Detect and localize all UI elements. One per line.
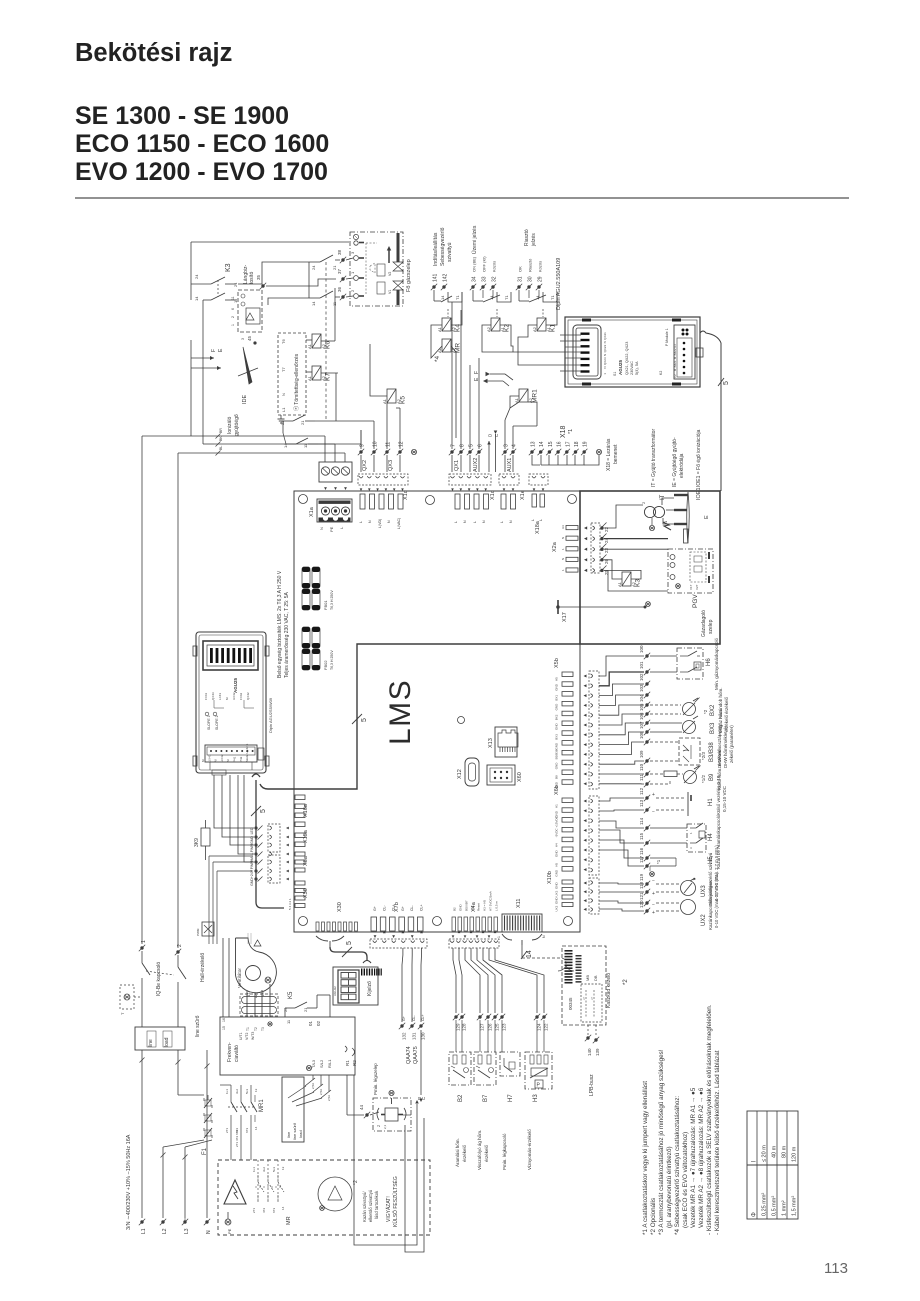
wire from 35 to 37 (266, 279, 336, 286)
svg-text:6: 6 (478, 444, 484, 447)
svg-text:*1: *1 (656, 859, 661, 864)
svg-text:02: 02 (316, 1020, 321, 1026)
svg-text:T2: T2 (254, 1027, 258, 1031)
svg-text:T7: T7 (281, 367, 286, 372)
QX2 QX3 labels (362, 460, 394, 471)
svg-text:112: 112 (639, 787, 644, 795)
svg-text:QX22: QX22 (603, 344, 607, 352)
svg-text:UX42: UX42 (220, 754, 224, 762)
X11 bus to kaszkad (502, 934, 574, 971)
svg-text:X13: X13 (488, 738, 494, 748)
signal group 1 terminals 141/142 (431, 227, 453, 290)
X17 connector (556, 600, 650, 622)
QX2/QX3 terminal strip (358, 474, 408, 491)
svg-text:22: 22 (604, 526, 609, 532)
svg-text:AUX2: AUX2 (473, 458, 479, 472)
valve contact pair 24/21 14/11 (309, 255, 340, 420)
svg-text:12: 12 (399, 441, 405, 447)
X6b connector column (554, 785, 573, 876)
H3 pressure sensor box (525, 1052, 552, 1170)
svg-text:24: 24 (194, 274, 199, 279)
svg-text:B2: B2 (458, 1094, 464, 1102)
svg-text:14: 14 (440, 295, 445, 300)
svg-text:H1: H1 (708, 798, 714, 806)
svg-text:T1: T1 (550, 295, 555, 300)
svg-text:Kaszkád kezelő: Kaszkád kezelő (606, 973, 612, 1008)
svg-text:K6: K6 (325, 341, 332, 349)
svg-text:BX22: BX22 (673, 348, 677, 355)
svg-text:EVO 1200 - EVO 1700: EVO 1200 - EVO 1700 (75, 158, 328, 186)
svg-text:L(VD): L(VD) (378, 519, 382, 528)
svg-text:1,5 mm²: 1,5 mm² (792, 1196, 798, 1216)
svg-text:Bekötési rajz: Bekötési rajz (75, 39, 232, 67)
X5b connector column (554, 658, 573, 789)
signal group 3 terminals 31/30/29 (516, 229, 544, 290)
svg-text:L: L (454, 521, 458, 523)
svg-text:120 m: 120 m (792, 1146, 798, 1162)
QX1/AUX2 labels (454, 458, 479, 472)
terminal rows 100-111 wires (599, 645, 650, 787)
svg-text:H3 = H5: H3 = H5 (483, 900, 487, 911)
freq box output fuse marks (305, 1078, 331, 1101)
X7b external strip (370, 931, 427, 949)
svg-text:⌇: ⌇ (591, 996, 593, 1001)
terminal rows 118-121 UX pumps (599, 873, 696, 916)
svg-text:Frekven-: Frekven- (227, 1042, 233, 1062)
H7 switch box (500, 1052, 520, 1170)
svg-text:34: 34 (472, 276, 478, 282)
X16a connector column left edge (295, 795, 309, 827)
X18 legend text (606, 438, 619, 471)
wires from left to X1a (214, 436, 345, 462)
svg-text:115: 115 (639, 832, 644, 840)
wire loop around K4/MR (431, 292, 462, 438)
svg-text:H6: H6 (706, 658, 712, 666)
svg-text:QAA74: QAA74 (406, 1046, 412, 1064)
svg-text:11: 11 (231, 296, 235, 300)
svg-text:K3: K3 (635, 579, 642, 587)
svg-text:jelzés: jelzés (531, 233, 537, 247)
svg-text:SE 1300 - SE 1900: SE 1300 - SE 1900 (75, 102, 289, 130)
svg-text:5: 5 (260, 809, 267, 813)
svg-text:110: 110 (639, 763, 644, 771)
svg-text:Ionizáló: Ionizáló (227, 417, 233, 434)
svg-text:BX3: BX3 (710, 722, 716, 734)
svg-text:18: 18 (574, 441, 580, 447)
annex box ignition/gas valve section (580, 491, 720, 644)
svg-text:1: 1 (231, 324, 235, 326)
X2a terminal numbers 22-25 (602, 523, 610, 576)
svg-text:B9: B9 (709, 773, 715, 781)
line filter 2 box (282, 1077, 304, 1142)
svg-text:UX2: UX2 (555, 905, 559, 911)
svg-text:24: 24 (311, 265, 316, 270)
X10b connector column (547, 871, 573, 911)
X30 connector slots (316, 902, 358, 931)
svg-text:P Module 1: P Module 1 (665, 328, 669, 346)
relay coil K2 (486, 318, 511, 332)
QAA wires from X7b (399, 948, 426, 1040)
svg-text:AGU25: AGU25 (618, 359, 623, 375)
horizontal rule (75, 197, 849, 198)
power wires below line box (140, 1050, 213, 1218)
svg-text:3: 3 (504, 444, 510, 447)
svg-text:Hall-érzékelő: Hall-érzékelő (200, 953, 206, 982)
svg-text:107: 107 (639, 721, 644, 729)
svg-text:G+: G+ (373, 906, 377, 911)
svg-text:F: F (211, 349, 217, 352)
main gas valve box Fo gazszelep (350, 232, 403, 306)
signal group 2 terminals 34/33/32 (470, 225, 498, 290)
svg-text:140: 140 (587, 1048, 592, 1056)
svg-text:K7: K7 (325, 373, 332, 381)
wire from K1 to module (518, 292, 565, 365)
svg-text:A2: A2 (486, 326, 491, 332)
svg-text:X18 = Lezárás: X18 = Lezárás (606, 438, 612, 471)
bus from AGU to X50 (251, 774, 284, 908)
svg-text:118: 118 (639, 881, 644, 889)
svg-text:35: 35 (256, 274, 261, 280)
svg-text:L: L (539, 519, 543, 521)
thick bus annex to AGU module (260, 644, 580, 789)
label Langbiztosito (243, 264, 255, 284)
svg-text:CL+: CL+ (392, 904, 396, 911)
module bus wire with 5 marker (700, 331, 730, 491)
svg-text:2: 2 (231, 316, 235, 318)
svg-text:*4: *4 (434, 355, 441, 362)
svg-text:PWM: PWM (196, 928, 200, 936)
svg-text:line: line (148, 1039, 154, 1047)
LPB terminals 140 139 (585, 1025, 600, 1096)
relay coil K5 (370, 344, 407, 415)
X1a socket on board (309, 499, 352, 532)
X1a screw terminals external (319, 462, 352, 490)
svg-text:+: + (652, 792, 655, 798)
X5b external strip (584, 671, 600, 789)
svg-text:Indítás/leállítás: Indítás/leállítás (433, 232, 439, 266)
X2a external strip (584, 523, 604, 573)
wire from K2 to module (482, 325, 565, 352)
svg-text:T6,3 H 250V: T6,3 H 250V (330, 650, 334, 670)
svg-text:0,25 mm²: 0,25 mm² (762, 1193, 768, 1216)
svg-text:MB: MB (585, 975, 590, 981)
svg-text:CL-: CL- (382, 905, 386, 911)
fuse FB02 (302, 627, 334, 670)
svg-text:21: 21 (303, 1007, 308, 1012)
svg-text:40 m: 40 m (772, 1145, 778, 1158)
svg-text:Reset: Reset (477, 903, 481, 911)
line load box (135, 1027, 185, 1050)
svg-text:R2: R2 (352, 1060, 357, 1066)
QX1 AUX2 terminal dots (449, 302, 484, 472)
B2 sensor box (449, 1052, 471, 1167)
svg-text:GND: GND (555, 850, 559, 858)
terminal rows 112-113 H1 (599, 775, 727, 816)
svg-text:U3: U3 (561, 525, 565, 529)
svg-text:+5V: +5V (471, 906, 475, 911)
svg-text:+24V: +24V (250, 869, 254, 878)
svg-text:FX41: FX41 (204, 692, 208, 700)
svg-text:BX2: BX2 (710, 704, 716, 716)
svg-text:T1: T1 (455, 295, 460, 300)
svg-text:BX3: BX3 (555, 734, 559, 740)
wires AGU to LED terminals (214, 775, 254, 862)
svg-text:GND: GND (555, 869, 559, 877)
sensor terminal dots 122-129 (453, 1014, 549, 1052)
BX3 flue gas sensor (650, 709, 729, 736)
svg-text:11: 11 (386, 442, 392, 447)
svg-text:6T3: 6T3 (245, 1127, 249, 1133)
small hole (458, 717, 465, 724)
AUX1 strip (499, 474, 519, 491)
F1 fuses (202, 1098, 212, 1155)
terminal 35 (256, 274, 266, 289)
svg-text:5: 5 (723, 381, 730, 385)
svg-text:Áramláskapcsoló: Áramláskapcsoló (715, 814, 721, 849)
svg-text:100: 100 (639, 645, 644, 653)
svg-text:00345: 00345 (568, 997, 573, 1010)
svg-text:bemenet: bemenet (613, 444, 619, 464)
svg-text:PE: PE (227, 1228, 232, 1234)
X1e connector slots (500, 490, 526, 523)
svg-text:X15a: X15a (303, 829, 309, 843)
X10b external strip (584, 878, 600, 914)
svg-text:BX1: BX1 (555, 695, 559, 701)
svg-text:BX2: BX2 (555, 714, 559, 720)
svg-text:U3: U3 (673, 344, 677, 348)
terminal rows 114-115 H4 flow switch (599, 814, 721, 852)
svg-text:36: 36 (337, 286, 342, 292)
svg-text:Riasztó: Riasztó (528, 258, 533, 272)
svg-text:ECO 1150 - ECO 1600: ECO 1150 - ECO 1600 (75, 130, 329, 158)
svg-text:OFF (KI): OFF (KI) (482, 256, 487, 272)
fuse FB01 (302, 567, 334, 610)
svg-text:l: l (752, 1161, 758, 1162)
svg-text:(csak ECO és EVO változatokhoz: (csak ECO és EVO változatokhoz) (682, 1132, 689, 1228)
svg-text:V2: V2 (388, 272, 392, 276)
wires X2a to PGV and IT (604, 505, 668, 591)
svg-text:GND: GND (555, 762, 559, 770)
svg-text:2,5A: 2,5A (319, 1089, 323, 1095)
svg-text:L1: L1 (141, 1228, 147, 1234)
svg-text:F1: F1 (202, 1147, 208, 1155)
svg-text:PGV: PGV (692, 594, 699, 608)
svg-text:3K9: 3K9 (194, 838, 200, 847)
X30 to display bus (316, 936, 371, 963)
svg-text:VIGYÁZAT!: VIGYÁZAT! (385, 1196, 392, 1222)
svg-text:H5: H5 (555, 677, 559, 681)
svg-text:22: 22 (280, 420, 285, 425)
svg-text:S1: S1 (613, 372, 617, 376)
svg-text:38: 38 (337, 249, 342, 255)
H6 gas pressure switch (650, 637, 719, 690)
svg-text:*2: *2 (623, 979, 629, 985)
svg-text:Fő gázszelep: Fő gázszelep (406, 259, 412, 292)
svg-text:104: 104 (639, 694, 644, 702)
svg-text:21: 21 (332, 265, 337, 270)
svg-text:tosító: tosító (249, 272, 255, 284)
svg-text:T1: T1 (246, 1027, 250, 1031)
svg-text:26: 26 (604, 558, 609, 564)
svg-text:line: line (286, 1131, 291, 1138)
svg-text:X18a: X18a (535, 520, 541, 534)
svg-text:CL-: CL- (410, 905, 414, 911)
svg-text:24: 24 (283, 1007, 288, 1012)
svg-text:142: 142 (443, 273, 449, 282)
X12 connector (457, 758, 479, 786)
IOE1 E labels in annex (696, 487, 710, 519)
svg-text:Riasztó: Riasztó (524, 229, 530, 246)
svg-text:AUX1: AUX1 (507, 458, 513, 472)
svg-text:Pmin. légszelep: Pmin. légszelep (373, 1063, 378, 1095)
left wire slash marks with codes (216, 428, 224, 456)
svg-text:QX3: QX3 (388, 460, 394, 471)
relay coil MR star4 (434, 339, 462, 362)
X18 strip (529, 474, 548, 491)
annex legend IE (672, 437, 685, 487)
svg-text:Vezeték MR A2 → ●8 újrahuzaloz: Vezeték MR A2 → ●8 újrahuzalozás: MR A2 … (698, 1087, 705, 1228)
flame supervision connector (231, 290, 262, 340)
svg-text:KÜLSŐ FESZÜLTSÉG: KÜLSŐ FESZÜLTSÉG (392, 1176, 399, 1227)
wires from X4a to sensors (453, 948, 544, 1013)
svg-text:14: 14 (311, 301, 316, 306)
svg-text:*2/3: *2/3 (701, 751, 706, 760)
svg-text:14: 14 (283, 443, 288, 448)
svg-text:P41: P41 (233, 756, 237, 762)
svg-text:H5: H5 (555, 863, 559, 867)
svg-text:lásd tartozékok: lásd tartozékok (374, 1190, 379, 1219)
svg-text:GND: GND (555, 742, 559, 750)
C D arrows terminals (487, 431, 499, 473)
svg-text:A1: A1 (437, 326, 442, 332)
svg-text:114: 114 (639, 817, 644, 825)
contact 14/11 lower (283, 438, 318, 448)
wires into valve contact bracket (238, 262, 309, 305)
svg-text:IOE1 = Fő égő ionizációja: IOE1 = Fő égő ionizációja (696, 429, 702, 487)
svg-text:Dipin AGU2.550A109: Dipin AGU2.550A109 (556, 258, 562, 310)
wires MR1 to line filter (220, 1085, 251, 1160)
svg-text:Kazánkapcsolás jelölése: Kazánkapcsolás jelölése (708, 880, 713, 930)
svg-text:L(VAC): L(VAC) (397, 518, 401, 529)
X11 connector hatched (497, 899, 546, 938)
svg-text:13: 13 (531, 441, 537, 447)
ignition transformer IT (641, 494, 668, 530)
relay coil K6 (306, 288, 335, 349)
cable cross-section table (747, 1111, 798, 1219)
svg-text:GND: GND (555, 703, 559, 711)
board mounting holes (299, 495, 577, 926)
E F arrows mid (474, 371, 513, 386)
svg-text:141: 141 (433, 273, 439, 282)
svg-text:Φ: Φ (752, 1212, 758, 1217)
Kijelzo display (333, 967, 382, 1005)
svg-text:A1: A1 (307, 343, 312, 349)
svg-text:HT 5VDC/2mA: HT 5VDC/2mA (489, 891, 493, 911)
svg-text:L: L (359, 521, 363, 523)
svg-text:14: 14 (254, 1126, 258, 1130)
svg-text:Gázadagoló: Gázadagoló (701, 610, 707, 637)
ignition electrode IE bars (662, 492, 689, 543)
3K9 resistor (194, 820, 210, 860)
svg-text:13: 13 (281, 1166, 285, 1170)
label Ionizalo gyujtoego (227, 414, 240, 436)
Gazadagolo szelep label (701, 610, 714, 637)
svg-text:5L3: 5L3 (272, 1167, 276, 1172)
svg-text:X1d: X1d (403, 490, 409, 500)
warning dashed box (218, 1160, 430, 1235)
svg-text:0-10 VDC (max. 2,7 m 5 SEL): 0-10 VDC (max. 2,7 m 5 SEL) (714, 872, 719, 928)
svg-text:*4 Sebességvezérlő szivattyú c: *4 Sebességvezérlő szivattyú csatlakozta… (674, 1095, 681, 1235)
svg-text:5: 5 (346, 941, 353, 945)
svg-text:+15VDC: +15VDC (555, 815, 559, 827)
svg-text:X5b: X5b (554, 658, 560, 668)
svg-text:A1: A1 (307, 375, 312, 381)
svg-text:3L2: 3L2 (262, 1167, 266, 1172)
svg-text:ⓔ Tömítettség-ellenőrzés: ⓔ Tömítettség-ellenőrzés (293, 353, 300, 411)
svg-text:131: 131 (412, 1032, 417, 1040)
svg-text:H7: H7 (508, 1094, 514, 1102)
svg-text:2T1: 2T1 (225, 1127, 229, 1133)
svg-text:01: 01 (308, 1020, 313, 1026)
QX2 QX3 terminal dots (358, 415, 417, 472)
relay coil K4 (437, 318, 462, 332)
K5 contact above freq box (283, 991, 330, 1017)
svg-text:16: 16 (557, 441, 563, 447)
svg-text:−: − (652, 809, 655, 815)
svg-text:B2: B2 (453, 907, 457, 911)
X junction box (196, 922, 214, 936)
svg-text:LX43: LX43 (218, 693, 222, 700)
X15a X8a external terminals and labels (250, 824, 289, 886)
IQ-Be switch terminals (120, 940, 186, 1015)
svg-text:BSX/B7: BSX/B7 (465, 900, 469, 911)
model list SE/ECO/EVO (75, 102, 329, 186)
wire top feed (191, 242, 349, 300)
X1d connector slots (359, 490, 409, 529)
svg-text:Sebességvezérlő: Sebességvezérlő (440, 227, 446, 266)
svg-text:MR1: MR1 (532, 389, 539, 403)
svg-text:QX23: QX23 (603, 357, 607, 365)
svg-text:23: 23 (604, 547, 609, 553)
svg-text:X10b: X10b (547, 871, 553, 884)
svg-text:1 mm²: 1 mm² (782, 1200, 788, 1216)
svg-text:13: 13 (254, 1088, 258, 1092)
svg-text:L1: L1 (281, 407, 286, 412)
svg-text:GND: GND (555, 897, 559, 905)
svg-text:132: 132 (402, 1032, 407, 1040)
svg-text:GND: GND (555, 683, 559, 691)
svg-text:G+: G+ (401, 906, 405, 911)
svg-text:1L1: 1L1 (225, 1089, 229, 1094)
svg-text:X12: X12 (457, 769, 463, 779)
svg-text:*3 A termosztát csatlakoztatás: *3 A termosztát csatlakoztatásához jó mi… (658, 1049, 665, 1235)
svg-text:113: 113 (824, 1260, 848, 1277)
svg-text:AGU25: AGU25 (233, 677, 238, 693)
svg-text:B3/B38: B3/B38 (709, 742, 715, 762)
svg-text:BR: BR (219, 428, 223, 433)
svg-text:H4: H4 (708, 833, 714, 841)
svg-text:2T1: 2T1 (252, 1207, 256, 1213)
X18a connector slots (531, 494, 545, 534)
leak check box Tomitettseg-ellenorzes (278, 333, 307, 423)
X4a connector slots (452, 891, 499, 931)
svg-text:H3: H3 (533, 1094, 539, 1102)
svg-text:LPB-busz: LPB-busz (589, 1074, 595, 1096)
svg-text:0,15-10 VDC: 0,15-10 VDC (722, 785, 727, 812)
svg-text:U/T1: U/T1 (239, 1032, 243, 1040)
svg-text:IE = Gyújtóégő gyújtó-: IE = Gyújtóégő gyújtó- (672, 437, 678, 487)
L1 L2 L3 N terminals (139, 1212, 232, 1234)
